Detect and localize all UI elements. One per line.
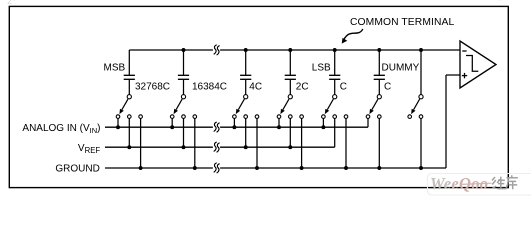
comparator U1 plus input sign (462, 75, 467, 77)
wire: GROUND rail riser to comparator + input (445, 75, 447, 168)
leader arrow from COMMON TERMINAL to top bus (343, 29, 362, 41)
wire: S3 middle contact to VREF rail (245, 118, 247, 147)
wire: VREF rail (105, 146, 335, 148)
wire: S3 left contact to ANALOG IN rail (233, 118, 235, 127)
wire: S7 right contact to GROUND rail (420, 118, 422, 168)
watermark box (428, 174, 531, 196)
comparator U1 triangle (460, 41, 496, 88)
capacitor C6 DUMMY C: plates (374, 74, 385, 76)
wire: S1 right contact to GROUND rail (140, 118, 142, 168)
wire: S2 right contact to GROUND rail (194, 118, 196, 168)
wire: S2 left contact to ANALOG IN rail (171, 118, 173, 127)
switch S1 arm (arrow) (122, 99, 128, 110)
svg-text:LSB: LSB (312, 63, 331, 74)
switch S7 arm (arrow) (414, 99, 420, 110)
svg-text:4C: 4C (249, 81, 262, 92)
capacitor C4 2C: plates (285, 74, 296, 76)
wire: S5 middle contact to VREF rail (334, 118, 336, 147)
capacitor C1 MSB 32768C: bottom lead (128, 79, 130, 94)
node: S1 junction on VREF (127, 145, 131, 149)
switch S2 arm (arrow) (176, 99, 182, 110)
node: S3 junction on VREF (244, 145, 248, 149)
wire: top common bus (129, 49, 460, 51)
capacitor C2 16384C: bottom lead (183, 79, 185, 94)
break symbol on VREF rail (213, 146, 220, 149)
switch S5 throw contacts (322, 115, 326, 119)
switch S5 pole (333, 95, 337, 99)
watermark hanzi ku (506, 175, 518, 189)
svg-text:16384C: 16384C (192, 81, 227, 92)
svg-text:2C: 2C (296, 81, 309, 92)
wire: GROUND rail (105, 167, 446, 169)
wire: S5 left contact to ANALOG IN rail (322, 118, 324, 127)
capacitor C1 MSB 32768C: lead from bus (128, 50, 130, 75)
node: S7 junction on GROUND (419, 166, 423, 170)
wire: S4 left contact to ANALOG IN rail (278, 118, 280, 127)
border frame (9, 6, 508, 187)
switch S4 pole (288, 95, 292, 99)
break symbol on common bus (213, 49, 220, 52)
svg-text:32768C: 32768C (135, 81, 170, 92)
svg-text:ANALOG IN (VIN): ANALOG IN (VIN) (22, 123, 100, 135)
switch S3 pole (244, 95, 248, 99)
switch S4 throw contacts (277, 115, 281, 119)
wire: S1 left contact to ANALOG IN rail (117, 118, 119, 127)
node: S3 junction on GROUND (255, 166, 259, 170)
break symbol on GROUND rail (213, 167, 220, 170)
capacitor C6 DUMMY C: lead from bus (378, 50, 380, 75)
switch S5 arm (arrow) (327, 99, 333, 110)
wire: S4 middle contact to VREF rail (289, 118, 291, 147)
node: S1 junction on ANALOG IN (116, 125, 120, 129)
comparator U1 step (threshold) glyph (466, 56, 478, 72)
capacitor C4 2C: bottom lead (289, 79, 291, 94)
switch S6 arm (arrow) (372, 99, 378, 110)
node: S6 junction on GROUND (377, 166, 381, 170)
svg-text:DUMMY: DUMMY (382, 63, 420, 74)
switch S7 throw contacts (left floating) (408, 115, 412, 119)
switch S2 pole (181, 95, 185, 99)
node: S4 junction on VREF (288, 145, 292, 149)
wire: S1 middle contact to VREF rail (128, 118, 130, 147)
wire: ANALOG IN rail (105, 126, 368, 128)
capacitor C5 LSB C: lead from bus (334, 50, 336, 75)
svg-text:COMMON TERMINAL: COMMON TERMINAL (350, 17, 454, 28)
svg-text:GROUND: GROUND (55, 164, 99, 175)
capacitor C6 DUMMY C: bottom lead (378, 79, 380, 94)
capacitor C3 4C: plates (240, 74, 251, 76)
watermark Q tail strike (461, 183, 492, 184)
switch S6 (dummy) pole (377, 95, 381, 99)
svg-text:MSB: MSB (104, 63, 126, 74)
switch S4 arm (arrow) (283, 99, 289, 110)
node: S1 junction on GROUND (139, 166, 143, 170)
switch S7 pole (419, 95, 423, 99)
capacitor C1 MSB 32768C: plates (124, 74, 135, 76)
switch S2 throw contacts (170, 115, 174, 119)
svg-text:C: C (340, 81, 347, 92)
svg-text:2*: 2* (7, 0, 16, 6)
wire: S4 right contact to GROUND rail (301, 118, 303, 168)
capacitor C5 LSB C: bottom lead (334, 79, 336, 94)
capacitor C2 16384C: lead from bus (183, 50, 185, 75)
capacitor C2 16384C: plates (178, 74, 189, 76)
node junction dots on common bus (182, 48, 186, 52)
node: S3 junction on ANALOG IN (232, 125, 236, 129)
svg-text:*: * (499, 0, 502, 6)
switch S6 throw contacts (366, 115, 370, 119)
watermark hanzi wei (492, 177, 505, 189)
comparator U1 minus input sign (462, 50, 466, 52)
break symbol on ANALOG IN rail (213, 126, 220, 129)
capacitor C3 4C: bottom lead (245, 79, 247, 94)
node: S5 junction on GROUND (344, 166, 348, 170)
wire: S2 middle contact to VREF rail (183, 118, 185, 147)
wire: S5 right contact to GROUND rail (345, 118, 347, 168)
svg-text:C: C (384, 81, 391, 92)
wire: S6 right contact to GROUND rail (378, 118, 380, 168)
node: S4 junction on GROUND (300, 166, 304, 170)
wire: S6 left contact to ANALOG IN rail end (367, 118, 369, 127)
node: S2 junction on ANALOG IN (170, 125, 174, 129)
switch S1 pole (127, 95, 131, 99)
node: S2 junction on GROUND (193, 166, 197, 170)
node: S5 junction on ANALOG IN (321, 125, 325, 129)
wire: far switch S7 lead from bus to pole (420, 50, 422, 95)
capacitor C3 4C: lead from bus (245, 50, 247, 75)
node: S2 junction on VREF (182, 145, 186, 149)
wire: S3 right contact to GROUND rail (256, 118, 258, 168)
capacitor C5 LSB C: plates (329, 74, 340, 76)
switch S3 arm (arrow) (238, 99, 244, 110)
switch S1 throw contacts (116, 115, 120, 119)
switch S3 throw contacts (233, 115, 237, 119)
node: S4 junction on ANALOG IN (277, 125, 281, 129)
capacitor C4 2C: lead from bus (289, 50, 291, 75)
